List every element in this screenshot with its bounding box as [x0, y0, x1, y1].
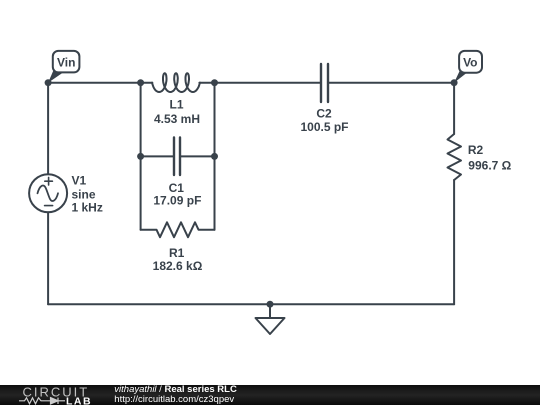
svg-text:sine: sine — [72, 187, 96, 201]
svg-text:http://circuitlab.com/cz3qpev: http://circuitlab.com/cz3qpev — [114, 394, 234, 405]
svg-text:V1: V1 — [72, 173, 87, 187]
svg-text:LAB: LAB — [66, 395, 92, 405]
logo squiggle resistor and diode — [19, 398, 65, 404]
wire right rail lower (R2 bottom to bottom rail) — [453, 180, 455, 304]
svg-text:R1: R1 — [169, 246, 185, 260]
footer bar — [0, 385, 540, 405]
V1 sine wave — [38, 185, 59, 201]
wire top right (C2 right plate to Vo node) — [328, 82, 454, 84]
wire left rail lower (V1 bottom to bottom rail) — [47, 212, 49, 304]
resistor R2 — [448, 134, 462, 180]
wire right rail upper (Vo node to R2 top) — [453, 83, 455, 134]
wire parallel-left vertical (node A down through C1 to R1) — [140, 83, 142, 230]
wire left rail upper (Vin node to V1 top) — [47, 83, 49, 175]
ground stem — [269, 304, 271, 318]
wire top left (Vin node to L1 left node) — [48, 82, 152, 84]
svg-text:182.6 kΩ: 182.6 kΩ — [153, 259, 203, 273]
svg-text:C2: C2 — [316, 107, 332, 121]
svg-text:4.53 mH: 4.53 mH — [154, 112, 200, 126]
svg-text:1 kHz: 1 kHz — [72, 201, 103, 215]
junction dot C1 left — [137, 153, 144, 160]
wire top middle (L1 right to C2 left plate) — [199, 82, 321, 84]
capacitor C2 plates — [321, 64, 328, 102]
resistor R1 — [141, 222, 215, 237]
svg-text:R2: R2 — [468, 143, 484, 157]
svg-text:Vin: Vin — [57, 55, 75, 69]
net label Vin — [48, 51, 79, 83]
junction dot Vo node — [451, 79, 458, 86]
net label Vo — [454, 51, 482, 83]
junction dot node A (L1/C1/R1 left) — [137, 79, 144, 86]
junction dot ground node — [267, 301, 274, 308]
inductor L1 — [152, 73, 200, 92]
wire parallel-right vertical (node B down through C1 to R1) — [214, 83, 216, 230]
capacitor C1 plates — [174, 138, 180, 176]
svg-text:Vo: Vo — [463, 56, 477, 70]
junction dot Vin node — [45, 79, 52, 86]
V1 plus sign — [45, 177, 53, 185]
svg-text:L1: L1 — [169, 98, 183, 112]
ground triangle — [256, 318, 285, 334]
wire bottom rail — [48, 303, 454, 305]
wire C1 right lead — [180, 155, 215, 157]
svg-text:996.7 Ω: 996.7 Ω — [468, 158, 511, 172]
voltage source V1 circle — [29, 174, 67, 212]
svg-text:17.09 pF: 17.09 pF — [153, 194, 201, 208]
V1 minus sign — [45, 205, 53, 207]
svg-text:100.5 pF: 100.5 pF — [300, 120, 348, 134]
wire C1 left lead — [141, 155, 174, 157]
junction dot C1 right — [211, 153, 218, 160]
junction dot node B (L1/C1/R1 right) — [211, 79, 218, 86]
